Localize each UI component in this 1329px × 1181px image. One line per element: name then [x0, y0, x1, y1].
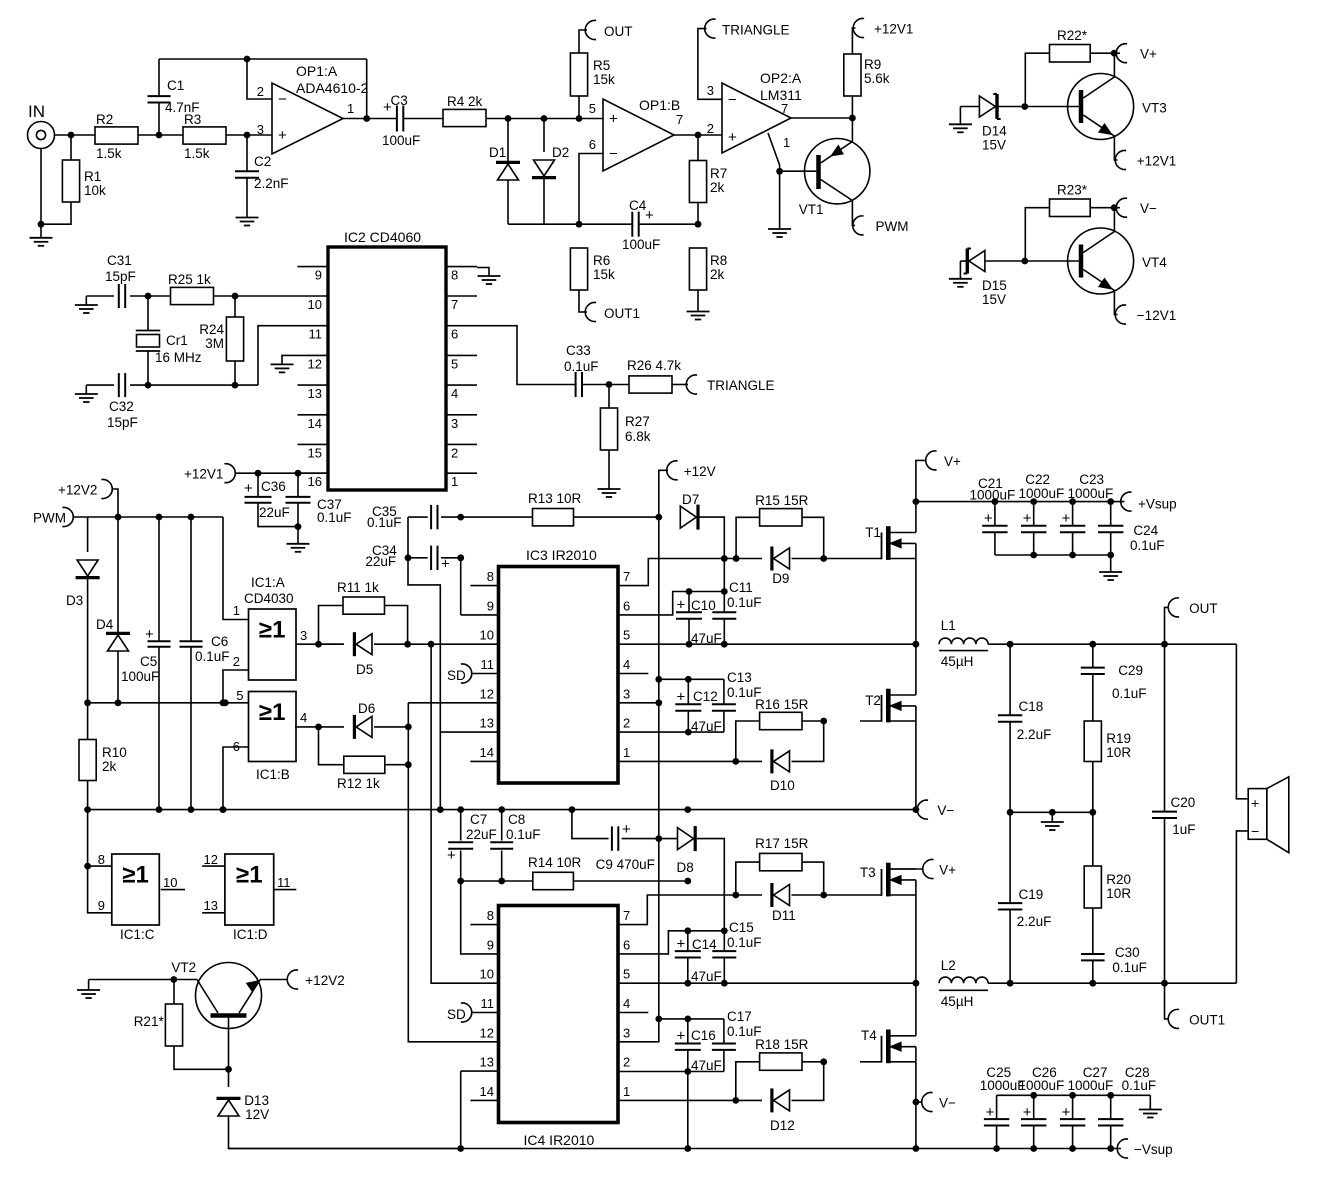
svg-text:1: 1 [233, 603, 240, 618]
svg-text:5: 5 [451, 356, 458, 371]
svg-text:R25 1k: R25 1k [168, 272, 211, 287]
svg-text:R2: R2 [96, 112, 113, 127]
svg-text:1: 1 [623, 745, 630, 760]
svg-text:1uF: 1uF [1172, 822, 1195, 837]
svg-text:TRIANGLE: TRIANGLE [707, 378, 775, 393]
svg-text:≥1: ≥1 [259, 617, 286, 644]
svg-text:R12 1k: R12 1k [337, 776, 380, 791]
svg-text:0.1uF: 0.1uF [367, 515, 402, 530]
svg-text:9: 9 [98, 898, 105, 913]
svg-text:13: 13 [480, 716, 494, 731]
svg-text:D8: D8 [677, 860, 694, 875]
svg-text:C1: C1 [167, 78, 184, 93]
svg-text:0.1uF: 0.1uF [564, 359, 599, 374]
svg-text:C3: C3 [391, 93, 408, 108]
svg-text:C8: C8 [508, 812, 525, 827]
svg-text:+12V2: +12V2 [58, 483, 97, 498]
svg-text:15V: 15V [982, 138, 1006, 153]
svg-text:VT4: VT4 [1142, 255, 1167, 270]
svg-text:14: 14 [308, 416, 322, 431]
svg-text:4: 4 [623, 657, 630, 672]
svg-text:+: + [622, 821, 631, 838]
svg-text:D11: D11 [772, 908, 796, 923]
svg-text:+: + [383, 99, 392, 116]
svg-text:R8: R8 [710, 253, 727, 268]
svg-text:R21*: R21* [134, 1014, 165, 1029]
svg-text:12: 12 [308, 356, 322, 371]
svg-text:IC1:B: IC1:B [256, 767, 290, 782]
svg-text:13: 13 [308, 386, 322, 401]
svg-text:IC1:D: IC1:D [233, 927, 268, 942]
svg-text:≥1: ≥1 [259, 699, 286, 726]
svg-text:4: 4 [451, 386, 458, 401]
svg-text:+12V: +12V [684, 464, 716, 479]
svg-text:C33: C33 [566, 343, 591, 358]
svg-text:1000uF: 1000uF [970, 488, 1016, 503]
svg-text:4: 4 [623, 996, 630, 1011]
svg-text:R15 15R: R15 15R [755, 493, 809, 508]
svg-text:C16: C16 [691, 1028, 716, 1043]
svg-text:D2: D2 [552, 145, 569, 160]
svg-text:C24: C24 [1133, 523, 1158, 538]
svg-text:+: + [645, 207, 654, 224]
svg-text:10: 10 [480, 967, 494, 982]
svg-text:100uF: 100uF [382, 133, 420, 148]
svg-text:D10: D10 [770, 778, 795, 793]
svg-text:R26 4.7k: R26 4.7k [627, 358, 681, 373]
svg-text:2.2uF: 2.2uF [1017, 914, 1052, 929]
svg-text:OUT: OUT [604, 24, 633, 39]
svg-text:+: + [677, 597, 686, 614]
svg-text:10R: 10R [1106, 886, 1131, 901]
svg-text:9: 9 [487, 937, 494, 952]
svg-text:OUT1: OUT1 [604, 306, 640, 321]
svg-text:15k: 15k [593, 267, 615, 282]
svg-text:5.6k: 5.6k [864, 71, 890, 86]
svg-text:IC3 IR2010: IC3 IR2010 [526, 547, 597, 563]
svg-text:+: + [728, 129, 737, 146]
svg-text:+: + [278, 127, 287, 144]
svg-text:V+: V+ [944, 454, 961, 469]
svg-text:45µH: 45µH [941, 654, 974, 669]
svg-text:R22*: R22* [1057, 28, 1088, 43]
svg-text:8: 8 [451, 268, 458, 283]
svg-text:R7: R7 [710, 166, 727, 181]
svg-text:R11 1k: R11 1k [337, 580, 379, 595]
svg-text:0.1uF: 0.1uF [1112, 686, 1147, 701]
svg-text:D4: D4 [96, 617, 114, 632]
svg-text:R13 10R: R13 10R [528, 491, 582, 506]
svg-text:+: + [1251, 795, 1259, 811]
svg-text:15pF: 15pF [107, 415, 138, 430]
svg-text:−: − [278, 91, 287, 108]
svg-text:4: 4 [300, 710, 307, 725]
svg-text:12: 12 [480, 1025, 494, 1040]
svg-text:2: 2 [623, 1055, 630, 1070]
svg-text:8: 8 [487, 908, 494, 923]
svg-text:C29: C29 [1118, 663, 1143, 678]
svg-text:R6: R6 [593, 253, 610, 268]
svg-text:D6: D6 [358, 701, 375, 716]
svg-text:10R: 10R [1106, 745, 1131, 760]
svg-text:6: 6 [623, 598, 630, 613]
svg-text:R1: R1 [84, 169, 101, 184]
svg-text:4.7nF: 4.7nF [165, 100, 200, 115]
svg-text:7: 7 [623, 908, 630, 923]
svg-text:C17: C17 [727, 1009, 752, 1024]
svg-text:D3: D3 [66, 593, 83, 608]
svg-text:−Vsup: −Vsup [1134, 1142, 1173, 1157]
svg-text:CD4030: CD4030 [244, 591, 294, 606]
svg-text:D15: D15 [982, 278, 1007, 293]
svg-text:2: 2 [707, 121, 714, 136]
svg-text:+: + [1023, 1104, 1032, 1121]
svg-text:R23*: R23* [1057, 183, 1088, 198]
svg-text:3M: 3M [205, 336, 224, 351]
svg-text:C31: C31 [107, 253, 132, 268]
svg-text:3: 3 [623, 686, 630, 701]
svg-text:R4 2k: R4 2k [447, 94, 483, 109]
svg-text:R5: R5 [593, 58, 610, 73]
svg-text:1: 1 [623, 1084, 630, 1099]
svg-text:22uF: 22uF [466, 827, 497, 842]
svg-text:+: + [1062, 510, 1071, 527]
svg-text:R9: R9 [864, 57, 881, 72]
svg-text:D13: D13 [244, 1093, 269, 1108]
svg-text:10: 10 [163, 875, 177, 890]
svg-text:C23: C23 [1079, 472, 1104, 487]
svg-text:1000uF: 1000uF [1068, 486, 1114, 501]
svg-text:16 MHz: 16 MHz [155, 350, 202, 365]
svg-text:13: 13 [480, 1055, 494, 1070]
svg-text:D14: D14 [982, 124, 1007, 139]
svg-text:+: + [986, 1104, 995, 1121]
svg-text:D5: D5 [356, 662, 373, 677]
svg-text:SD: SD [447, 1007, 466, 1022]
svg-text:2k: 2k [710, 180, 725, 195]
svg-text:7: 7 [623, 569, 630, 584]
svg-text:IC2 CD4060: IC2 CD4060 [344, 229, 421, 245]
svg-text:47uF: 47uF [691, 969, 722, 984]
svg-text:C13: C13 [727, 670, 752, 685]
svg-text:OP1:B: OP1:B [639, 97, 680, 113]
svg-text:3: 3 [623, 1025, 630, 1040]
svg-text:3: 3 [707, 83, 714, 98]
svg-text:R24: R24 [199, 322, 224, 337]
svg-text:1000uF: 1000uF [1068, 1078, 1114, 1093]
svg-text:R27: R27 [625, 414, 650, 429]
svg-text:−12V1: −12V1 [1137, 308, 1176, 323]
svg-text:1: 1 [347, 101, 354, 116]
svg-text:IC1:A: IC1:A [251, 575, 285, 590]
svg-text:C19: C19 [1019, 887, 1044, 902]
svg-text:3: 3 [257, 122, 264, 137]
svg-text:+: + [609, 111, 618, 128]
svg-text:+: + [244, 480, 253, 497]
svg-text:OUT: OUT [1189, 601, 1218, 616]
svg-text:R18 15R: R18 15R [755, 1037, 809, 1052]
svg-text:OP2:A: OP2:A [760, 70, 802, 86]
svg-text:14: 14 [480, 745, 494, 760]
svg-text:12: 12 [204, 852, 218, 867]
svg-text:L2: L2 [941, 958, 956, 973]
svg-text:11: 11 [309, 327, 323, 342]
svg-text:≥1: ≥1 [236, 862, 263, 889]
svg-text:6: 6 [451, 327, 458, 342]
svg-text:2: 2 [257, 84, 264, 99]
svg-text:16: 16 [308, 474, 322, 489]
svg-text:9: 9 [487, 598, 494, 613]
svg-text:7: 7 [781, 101, 788, 116]
svg-text:PWM: PWM [33, 511, 66, 526]
svg-text:+: + [984, 510, 993, 527]
svg-text:R16 15R: R16 15R [755, 697, 809, 712]
svg-text:6: 6 [589, 137, 596, 152]
svg-text:0.1uF: 0.1uF [506, 827, 541, 842]
svg-text:+12V1: +12V1 [1137, 154, 1176, 169]
svg-text:+: + [677, 1028, 686, 1045]
svg-text:8: 8 [487, 569, 494, 584]
svg-text:3: 3 [451, 416, 458, 431]
svg-text:C22: C22 [1025, 472, 1050, 487]
svg-text:V−: V− [937, 803, 954, 818]
svg-text:D7: D7 [682, 492, 699, 507]
svg-text:+: + [1062, 1104, 1071, 1121]
svg-text:15k: 15k [593, 72, 615, 87]
svg-text:Cr1: Cr1 [166, 333, 188, 348]
svg-text:C5: C5 [140, 654, 157, 669]
svg-text:+Vsup: +Vsup [1138, 497, 1177, 512]
svg-text:≥1: ≥1 [122, 862, 149, 889]
svg-text:R17 15R: R17 15R [755, 836, 809, 851]
svg-text:T1: T1 [865, 525, 881, 540]
svg-text:−: − [728, 91, 737, 108]
svg-text:1000uF: 1000uF [1019, 1078, 1065, 1093]
svg-text:0.1uF: 0.1uF [1122, 1078, 1157, 1093]
svg-text:0.1uF: 0.1uF [727, 935, 762, 950]
svg-text:5: 5 [589, 101, 596, 116]
svg-text:R19: R19 [1106, 731, 1131, 746]
svg-text:+: + [145, 626, 154, 643]
svg-text:2.2nF: 2.2nF [254, 176, 289, 191]
svg-text:IC4 IR2010: IC4 IR2010 [524, 1132, 595, 1148]
svg-text:7: 7 [676, 112, 683, 127]
svg-text:C36: C36 [261, 479, 286, 494]
svg-text:TRIANGLE: TRIANGLE [722, 23, 790, 38]
svg-text:11: 11 [277, 875, 291, 890]
svg-text:10: 10 [308, 297, 322, 312]
svg-text:0.1uF: 0.1uF [195, 649, 230, 664]
svg-text:6.8k: 6.8k [625, 429, 651, 444]
svg-text:C30: C30 [1115, 945, 1140, 960]
svg-text:IC1:C: IC1:C [120, 927, 155, 942]
svg-text:100uF: 100uF [121, 669, 159, 684]
svg-text:D12: D12 [770, 1118, 795, 1133]
svg-text:PWM: PWM [876, 219, 909, 234]
svg-text:V−: V− [939, 1096, 956, 1111]
svg-text:5: 5 [623, 967, 630, 982]
svg-text:C7: C7 [470, 812, 487, 827]
svg-text:+12V2: +12V2 [305, 973, 344, 988]
svg-text:C9 470uF: C9 470uF [596, 857, 655, 872]
svg-text:45µH: 45µH [941, 994, 974, 1009]
svg-text:+: + [1023, 510, 1032, 527]
svg-text:ADA4610-2: ADA4610-2 [296, 80, 369, 96]
svg-text:C11: C11 [729, 580, 753, 595]
svg-text:6: 6 [623, 937, 630, 952]
svg-text:12V: 12V [245, 1107, 269, 1122]
svg-text:T2: T2 [865, 693, 881, 708]
svg-text:R14 10R: R14 10R [528, 855, 582, 870]
svg-text:V+: V+ [939, 863, 956, 878]
svg-text:22uF: 22uF [259, 505, 290, 520]
svg-text:2.2uF: 2.2uF [1017, 727, 1052, 742]
svg-text:5: 5 [236, 688, 243, 703]
svg-text:1: 1 [451, 474, 458, 489]
svg-text:+: + [677, 689, 686, 706]
svg-text:VT1: VT1 [799, 202, 824, 217]
svg-text:C14: C14 [692, 937, 717, 952]
svg-text:IN: IN [28, 102, 45, 121]
svg-text:SD: SD [447, 668, 466, 683]
svg-text:+12V1: +12V1 [184, 467, 223, 482]
svg-text:3: 3 [300, 628, 307, 643]
svg-text:2: 2 [233, 654, 240, 669]
svg-text:C20: C20 [1171, 795, 1196, 810]
svg-text:9: 9 [315, 268, 322, 283]
svg-text:R20: R20 [1106, 872, 1131, 887]
svg-text:10: 10 [480, 628, 494, 643]
svg-text:+: + [447, 847, 456, 864]
svg-text:VT3: VT3 [1142, 101, 1167, 116]
svg-text:2k: 2k [102, 759, 117, 774]
svg-text:C32: C32 [109, 399, 134, 414]
svg-text:0.1uF: 0.1uF [727, 595, 762, 610]
svg-text:C10: C10 [691, 598, 716, 613]
svg-text:12: 12 [480, 686, 494, 701]
svg-text:V−: V− [1140, 201, 1157, 216]
svg-text:15pF: 15pF [105, 269, 136, 284]
svg-text:11: 11 [481, 996, 495, 1011]
svg-text:L1: L1 [941, 618, 956, 633]
svg-text:R10: R10 [102, 745, 127, 760]
svg-text:5: 5 [623, 628, 630, 643]
svg-text:2: 2 [623, 716, 630, 731]
svg-text:+12V1: +12V1 [874, 22, 913, 37]
svg-text:1.5k: 1.5k [184, 146, 210, 161]
svg-text:13: 13 [204, 898, 218, 913]
svg-text:14: 14 [480, 1084, 494, 1099]
svg-text:8: 8 [98, 852, 105, 867]
svg-text:0.1uF: 0.1uF [1130, 538, 1165, 553]
svg-text:0.1uF: 0.1uF [1112, 960, 1147, 975]
svg-text:22uF: 22uF [365, 554, 396, 569]
svg-text:C6: C6 [211, 634, 228, 649]
svg-text:100uF: 100uF [622, 237, 660, 252]
svg-text:D1: D1 [489, 145, 506, 160]
svg-text:C18: C18 [1019, 699, 1044, 714]
svg-text:0.1uF: 0.1uF [317, 510, 352, 525]
svg-text:OUT1: OUT1 [1189, 1013, 1225, 1028]
svg-text:C12: C12 [693, 689, 718, 704]
svg-text:C2: C2 [254, 154, 271, 169]
svg-text:1.5k: 1.5k [96, 146, 122, 161]
svg-text:7: 7 [451, 297, 458, 312]
svg-text:+: + [677, 936, 686, 953]
svg-text:T4: T4 [861, 1028, 877, 1043]
svg-text:C15: C15 [729, 920, 754, 935]
svg-text:OP1:A: OP1:A [296, 63, 338, 79]
svg-text:1: 1 [783, 135, 790, 150]
svg-text:10k: 10k [84, 183, 106, 198]
svg-text:2k: 2k [710, 267, 725, 282]
svg-text:VT2: VT2 [171, 960, 196, 975]
svg-text:15: 15 [308, 445, 322, 460]
svg-text:−: − [1251, 823, 1259, 839]
svg-text:T3: T3 [860, 865, 876, 880]
svg-text:+: + [441, 556, 450, 573]
svg-text:V+: V+ [1140, 47, 1157, 62]
svg-text:2: 2 [451, 445, 458, 460]
svg-text:−: − [609, 146, 618, 163]
svg-text:D9: D9 [772, 571, 789, 586]
svg-text:15V: 15V [982, 292, 1006, 307]
svg-text:1000uF: 1000uF [1019, 486, 1065, 501]
svg-text:11: 11 [481, 657, 495, 672]
